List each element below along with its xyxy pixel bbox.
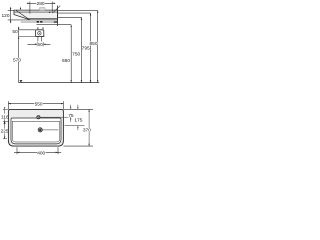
- dim 370 arrows: [88, 109, 89, 146]
- basin bowl inner slope: [16, 10, 57, 18]
- box top arrows: [38, 27, 43, 28]
- dim 75 tails: [70, 105, 72, 122]
- plan bottom edge extension: [63, 145, 93, 147]
- plan bowl inner line: [12, 121, 60, 142]
- wall bracket: [54, 21, 58, 22]
- basin rim second line: [14, 11, 57, 13]
- svg-text:570: 570: [13, 58, 21, 64]
- dim 370 line: [88, 109, 90, 146]
- tap leader: [40, 116, 73, 118]
- left leaders: [3, 109, 9, 138]
- svg-text:75: 75: [68, 113, 74, 119]
- dim 225 arrow: [4, 137, 5, 139]
- rim pointer arrow: [20, 7, 22, 8]
- plan top edge extension: [63, 108, 93, 110]
- dim 550 ext lines: [8, 101, 63, 109]
- dim 116 arrows: [4, 107, 5, 123]
- dim 50 arrows: [18, 28, 20, 39]
- leader 680 level: [36, 24, 71, 26]
- floor line: [19, 82, 100, 84]
- dim 400 ticks: [17, 147, 58, 154]
- height leader 850: [58, 9, 98, 11]
- height leader 795: [58, 12, 91, 14]
- svg-text:175: 175: [74, 117, 82, 123]
- svg-text:120: 120: [1, 13, 9, 19]
- height floor arrows: [70, 80, 98, 82]
- dim 50 / 570 vertical line: [18, 27, 20, 83]
- dim 550 line: [8, 103, 63, 105]
- dim 60 arrows: [35, 44, 46, 46]
- floor datum triangle: [19, 80, 22, 82]
- drain leader: [43, 129, 59, 131]
- pipe below box: [38, 37, 42, 42]
- svg-text:280: 280: [37, 1, 45, 7]
- svg-text:550: 550: [35, 101, 43, 107]
- svg-text:400: 400: [37, 150, 45, 156]
- dim 50 leaders: [19, 30, 45, 37]
- dim 400 arrows: [17, 152, 58, 154]
- dim 120 arrows: [10, 8, 12, 22]
- trap box circle: [38, 32, 41, 35]
- tap block: [40, 8, 45, 11]
- basin side view body: [14, 10, 58, 20]
- height line 795: [90, 13, 92, 82]
- dim 175 tails: [77, 105, 79, 130]
- tap hole dot side view: [49, 12, 51, 14]
- dim 225 line: [4, 122, 5, 139]
- trap box circle dot: [39, 33, 40, 34]
- plan outer outline: [8, 109, 63, 146]
- wall line: [57, 6, 59, 27]
- plan bowl outer: [11, 118, 61, 144]
- dim 550 arrows: [8, 103, 63, 105]
- dim 60 line: [27, 43, 50, 45]
- dim 280 arrows: [28, 3, 55, 5]
- svg-text:60: 60: [37, 42, 43, 48]
- dim 116 line: [4, 109, 6, 121]
- dim 120 line: [10, 7, 12, 23]
- dim 400 line: [14, 151, 61, 153]
- svg-text:750: 750: [72, 52, 80, 58]
- height leader 750: [58, 16, 82, 18]
- drain circle: [38, 128, 42, 132]
- height top arrows: [70, 10, 98, 27]
- trap box: [36, 30, 44, 37]
- height line 680: [70, 25, 72, 83]
- height line 750: [80, 17, 82, 82]
- tap hole plan: [37, 116, 40, 119]
- dim 280 line: [27, 2, 55, 4]
- svg-text:225: 225: [1, 129, 9, 135]
- svg-text:370: 370: [83, 128, 91, 134]
- dim 280 ticks: [30, 2, 52, 14]
- dim 75 arrows: [70, 107, 71, 119]
- under-basin fitting line: [21, 21, 58, 23]
- dim 175 arrows: [77, 107, 78, 128]
- svg-text:680: 680: [62, 58, 70, 64]
- fitting nut left: [37, 21, 39, 23]
- svg-text:50: 50: [12, 29, 18, 35]
- svg-text:850: 850: [89, 41, 97, 47]
- wall hatch: [52, 6, 60, 14]
- dim 120 leaders: [8, 10, 31, 20]
- dim 60 ticks: [37, 42, 43, 46]
- fitting nut right: [40, 21, 42, 23]
- svg-text:116: 116: [1, 115, 9, 121]
- height line 850: [97, 10, 99, 82]
- right leader 175 level: [65, 125, 85, 127]
